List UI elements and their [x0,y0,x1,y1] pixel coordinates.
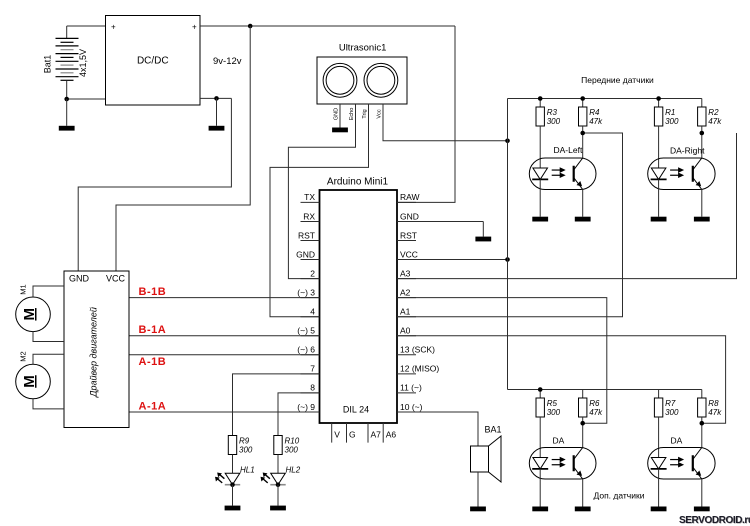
junction divider [580,131,585,136]
ground [532,217,548,222]
resistor R4 [579,107,587,126]
resistor R8 [698,398,706,417]
svg-text:300: 300 [547,117,561,126]
wire to ground [216,98,218,125]
wire [582,417,584,448]
pin A3 (right) [397,278,416,280]
svg-text:47k: 47k [708,408,722,417]
wire [701,417,703,448]
resistor R2 [698,107,706,126]
junction [538,387,543,392]
wire to ground [232,485,234,506]
svg-text:R5: R5 [547,399,558,408]
wire pin 7 to R9 [233,374,320,436]
junction battery- [64,97,69,102]
wire [582,99,584,108]
svg-text:A2: A2 [400,287,411,297]
svg-text:R4: R4 [589,108,600,117]
svg-text:Драйвер двигателей: Драйвер двигателей [89,307,99,398]
wire to ground [277,485,279,506]
junction VCC [505,257,510,262]
pin 11 (~) (right) [397,392,416,394]
svg-text:R6: R6 [589,399,600,408]
wire driver to arduino [129,297,320,299]
wire [582,390,584,399]
pin (~) 9 (left) [301,411,320,413]
pin RX (left) [301,220,320,222]
wire [582,190,584,217]
svg-text:A7: A7 [371,430,382,440]
wire [701,190,703,217]
svg-text:13 (SCK): 13 (SCK) [400,345,435,355]
wire battery+ to DC/DC [67,25,106,27]
svg-text:VCC: VCC [106,274,126,284]
svg-text:DC/DC: DC/DC [137,56,169,67]
svg-text:300: 300 [285,446,299,455]
svg-text:VCC: VCC [400,249,418,259]
ground [575,217,591,222]
ground [694,507,710,512]
wire [701,479,703,507]
svg-text:M2: M2 [19,351,28,361]
svg-text:8: 8 [310,383,315,393]
wire A2 to DA out [397,298,607,424]
battery Bat1 [66,26,68,38]
wire to driver GND [78,98,231,271]
svg-text:R8: R8 [708,399,719,408]
svg-text:TX: TX [304,192,315,202]
svg-text:+: + [192,23,197,32]
motor driver box [64,271,129,428]
svg-text:Trig: Trig [362,109,368,118]
optocoupler DA-Right [648,158,715,190]
pin 12 (MISO) (right) [397,373,416,375]
svg-text:Передние датчики: Передние датчики [581,75,654,85]
ground [532,507,548,512]
svg-text:G: G [349,430,356,440]
motor M2 [16,364,51,399]
opto LED [651,168,666,179]
wire M2 bottom [33,399,64,409]
wire [658,417,660,458]
wire M2 top [33,354,64,364]
pin GND (left) [301,259,320,261]
wire [539,469,541,507]
wire M1 top [33,286,64,297]
arrows HL1 [219,474,224,479]
ground BA1 [470,507,486,512]
wire pin10 to speaker [397,412,478,446]
wire [539,179,541,216]
svg-text:DA-Right: DA-Right [670,145,705,155]
svg-text:Arduino Mini1: Arduino Mini1 [327,177,389,188]
svg-text:M1: M1 [19,284,28,294]
svg-text:(~) 6: (~) 6 [297,345,315,355]
svg-text:DA: DA [553,436,565,446]
svg-text:B-1B: B-1B [139,286,167,298]
wire [539,390,541,399]
ground [575,507,591,512]
pin A2 (right) [397,297,416,299]
pin 8 (left) [301,392,320,394]
wire GND pin [397,220,483,222]
ground DC/DC [209,126,225,131]
svg-text:A-1A: A-1A [139,400,167,412]
pin A7 (bottom) [367,423,369,443]
wire [701,390,703,399]
pin TX (left) [301,201,320,203]
opto transistor [573,166,575,182]
pin 2 (left) [301,278,320,280]
junction 9-12v [248,24,253,29]
opto LED [533,458,548,469]
svg-text:R2: R2 [708,108,719,117]
svg-text:(~) 9: (~) 9 [297,402,315,412]
ground HL1 [225,506,241,511]
wire [539,126,541,168]
svg-text:2: 2 [310,268,315,278]
wire to RAW [397,26,455,202]
svg-text:7: 7 [310,364,315,374]
ground battery [59,126,75,131]
svg-text:Vcc: Vcc [377,109,383,118]
svg-text:GND: GND [296,249,315,259]
junction HL2 cathode [276,482,281,487]
pin RST (left) [301,240,320,242]
svg-text:11 (~): 11 (~) [400,383,422,393]
opto arrows [670,169,680,171]
junction gnd out [214,96,219,101]
junction [656,96,661,101]
pin (~) 5 (left) [301,335,320,337]
wire to ground [482,221,484,236]
svg-text:47k: 47k [708,117,722,126]
pin 4 (left) [301,316,320,318]
svg-text:Bat1: Bat1 [43,55,53,74]
pin 10 (~) (right) [397,411,416,413]
junction [580,96,585,101]
motor M1 [16,297,51,332]
pin 7 (left) [301,373,320,375]
svg-text:GND: GND [334,108,340,120]
pin G (bottom) [346,423,348,443]
svg-text:HL1: HL1 [240,466,255,475]
svg-text:(~) 3: (~) 3 [297,287,315,297]
wire DC/DC gnd out [200,97,231,99]
wire to ground [66,99,68,126]
svg-text:300: 300 [547,408,561,417]
svg-text:HL2: HL2 [286,466,301,475]
wire battery- to DC/DC [67,98,106,100]
svg-text:DIL 24: DIL 24 [343,405,369,415]
junction divider [700,131,705,136]
pin VCC (right) [397,259,416,261]
svg-text:Доп. датчики: Доп. датчики [594,491,645,501]
svg-text:300: 300 [665,408,679,417]
svg-text:RST: RST [298,230,315,240]
svg-text:300: 300 [239,446,253,455]
svg-text:9v-12v: 9v-12v [213,56,242,67]
resistor R9 [228,436,236,455]
wire [658,469,660,507]
ultrasonic sensor Ultrasonic1 [317,57,407,104]
svg-text:V: V [334,430,340,440]
svg-text:A3: A3 [400,268,411,278]
ground ultrasonic [332,128,348,133]
svg-text:RAW: RAW [400,192,420,202]
svg-text:R3: R3 [547,108,558,117]
svg-text:+: + [111,23,116,32]
svg-text:4: 4 [310,307,315,317]
svg-text:300: 300 [665,117,679,126]
wire to driver VCC [116,26,250,271]
wire Vcc to VCC net [383,104,508,141]
LED HL1 [225,473,240,484]
arrows HL2 [265,474,270,479]
wire driver to arduino [129,411,320,413]
wire pin 8 to R10 [278,393,320,436]
svg-text:(~) 5: (~) 5 [297,326,315,336]
svg-text:RX: RX [303,211,315,221]
wire Echo to pin 2 [288,104,355,279]
svg-text:M: M [21,308,38,321]
resistor R3 [536,107,544,126]
wire R9 to HL1 [232,455,234,474]
pin RAW (right) [397,201,416,203]
wire driver to arduino [129,354,320,356]
wire A3 to DA-Right out [397,133,737,279]
wire A1 to DA-Left out [397,133,623,317]
opto LED [533,168,548,179]
wire [539,99,541,108]
svg-text:Echo: Echo [349,108,355,121]
junction divider [700,421,705,426]
wire [582,479,584,507]
wire VCC pin [397,259,508,261]
wire speaker to ground [477,472,479,507]
Arduino Mini U1 [320,190,398,423]
resistor R10 [274,436,282,455]
pin V (bottom) [331,423,333,443]
svg-text:12 (MISO): 12 (MISO) [400,364,439,374]
svg-text:A1: A1 [400,307,411,317]
wire [658,99,660,108]
wire A0 to DA out [397,336,726,423]
opto transistor [692,455,694,471]
svg-text:B-1A: B-1A [139,324,167,336]
wire [582,126,584,158]
optocoupler DA-Left [529,158,596,190]
junction divider [580,421,585,426]
junction Vcc net [505,139,510,144]
wire [701,126,703,158]
svg-text:47k: 47k [589,408,603,417]
wire [539,417,541,458]
pin GND (right) [397,220,416,222]
opto transistor [692,166,694,182]
svg-text:R10: R10 [285,437,300,446]
svg-text:SERVODROID.ru: SERVODROID.ru [679,515,750,526]
svg-text:DA-Left: DA-Left [554,145,583,155]
resistor R6 [579,398,587,417]
svg-text:A-1B: A-1B [139,356,167,368]
wire [701,99,703,108]
opto arrows [552,169,562,171]
svg-text:BA1: BA1 [485,425,502,435]
opto arrows [552,459,562,461]
wire [658,179,660,216]
ground [651,217,667,222]
svg-text:R9: R9 [239,437,250,446]
DC/DC converter [106,16,201,106]
optocoupler DA [529,448,596,480]
wire Trig to pin 4 [270,104,369,317]
pin (~) 6 (left) [301,354,320,356]
wire R10 to HL2 [277,455,279,474]
speaker BA1 [471,446,489,472]
svg-text:GND: GND [400,211,419,221]
junction HL1 cathode [230,482,235,487]
optocoupler DA [648,448,715,480]
svg-text:R1: R1 [665,108,675,117]
resistor R1 [654,107,662,126]
ground [694,217,710,222]
svg-text:M: M [21,375,38,388]
opto transistor [573,455,575,471]
resistor R7 [654,398,662,417]
ground [651,507,667,512]
ground HL2 [270,506,286,511]
svg-text:A0: A0 [400,326,411,336]
wire [658,126,660,168]
wire front sensors bus [508,98,702,100]
svg-text:GND: GND [69,274,90,284]
svg-text:R7: R7 [665,399,676,408]
svg-text:RST: RST [400,230,417,240]
pin A0 (right) [397,335,416,337]
pin 13 (SCK) (right) [397,354,416,356]
wire ultrasonic GND [339,104,341,128]
ground arduino [475,237,491,242]
LED HL2 [271,473,286,484]
pin RST (right) [397,240,416,242]
svg-text:10 (~): 10 (~) [400,402,423,412]
junction [538,96,543,101]
opto LED [651,458,666,469]
pin A1 (right) [397,316,416,318]
wire driver to arduino [129,335,320,337]
wire VCC vertical [507,99,509,390]
wire [658,390,660,399]
svg-text:4x1,5V: 4x1,5V [78,49,88,77]
wire M1 bottom [33,332,64,342]
svg-text:A6: A6 [386,430,397,440]
svg-text:DA: DA [671,436,683,446]
wire bottom sensors bus [508,389,702,391]
pin A6 (bottom) [382,423,384,443]
pin (~) 3 (left) [301,297,320,299]
wire 9-12v bus [200,25,455,27]
opto arrows [670,459,680,461]
svg-text:47k: 47k [589,117,603,126]
resistor R5 [536,398,544,417]
svg-text:Ultrasonic1: Ultrasonic1 [339,43,387,54]
